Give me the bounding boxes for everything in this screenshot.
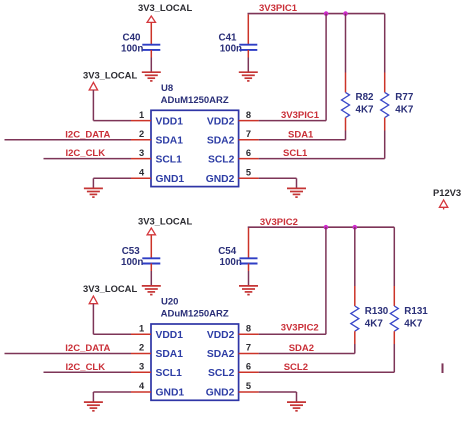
resistor R131 [390, 306, 398, 331]
resistor R77 [381, 92, 389, 117]
svg-text:GND2: GND2 [206, 388, 235, 399]
svg-text:3: 3 [139, 148, 144, 158]
wire R131 bottom to SCL2 [393, 331, 395, 344]
svg-text:C41: C41 [219, 33, 238, 44]
IC U20 ADuM1250ARZ body [151, 324, 239, 400]
svg-text:3V3_LOCAL: 3V3_LOCAL [83, 283, 137, 294]
svg-text:3V3PIC2: 3V3PIC2 [281, 322, 319, 333]
svg-text:4: 4 [139, 168, 145, 178]
power port P12V3 [439, 200, 447, 207]
svg-text:R82: R82 [356, 92, 375, 103]
svg-text:VDD2: VDD2 [207, 330, 235, 341]
svg-text:5: 5 [246, 168, 251, 178]
svg-text:4: 4 [139, 381, 145, 391]
svg-text:1: 1 [139, 110, 144, 120]
svg-text:SCL2: SCL2 [208, 154, 235, 165]
svg-text:GND1: GND1 [156, 174, 185, 185]
wire R130 bottom to SDA2 [354, 331, 356, 344]
svg-text:GND2: GND2 [206, 174, 235, 185]
pin 7 stub (SDA2) [239, 139, 259, 141]
svg-text:100n: 100n [121, 43, 143, 54]
svg-text:SDA2: SDA2 [207, 349, 235, 360]
svg-text:3: 3 [139, 362, 144, 372]
junction (rail / VDD2 branch) [324, 225, 329, 230]
pin 3 stub (SCL1) [131, 371, 151, 373]
svg-text:100n: 100n [220, 257, 242, 268]
svg-text:SDA1: SDA1 [156, 349, 184, 360]
pin 4 stub (GND1) [131, 391, 151, 393]
wire 3V3PIC2 rail [248, 226, 395, 228]
svg-text:7: 7 [246, 343, 251, 353]
pin 1 stub (VDD1) [131, 333, 151, 335]
svg-text:4K7: 4K7 [356, 105, 375, 116]
power port 3V3_LOCAL (top center) [147, 16, 155, 22]
svg-text:SCL1: SCL1 [156, 368, 183, 379]
svg-text:2: 2 [139, 343, 144, 353]
svg-text:U20: U20 [161, 297, 178, 308]
pin 2 stub (SDA1) [131, 139, 151, 141]
svg-text:8: 8 [246, 324, 251, 334]
wire rail corner to R77 top [384, 14, 386, 73]
power port 3V3_LOCAL (top left) [89, 82, 97, 90]
wire rail to U20 VDD2 pin 8 [325, 227, 327, 334]
pin 6 stub (SCL2) [239, 371, 259, 373]
ground (under C40) [142, 72, 161, 81]
wire I2C_DATA to SDA1 pin 2 [5, 139, 132, 141]
svg-text:I2C_DATA: I2C_DATA [65, 343, 110, 354]
power port 3V3_LOCAL (bottom center) [147, 228, 155, 235]
svg-text:R131: R131 [404, 306, 428, 317]
svg-text:SDA2: SDA2 [289, 343, 314, 354]
junction (rail / R130 branch) [353, 225, 358, 230]
svg-text:1: 1 [139, 324, 144, 334]
wire R82 bottom to SDA1 [345, 118, 347, 131]
svg-text:SCL2: SCL2 [208, 368, 235, 379]
pin 1 stub (VDD1) [131, 120, 151, 122]
svg-text:6: 6 [246, 362, 251, 372]
svg-text:ADuM1250ARZ: ADuM1250ARZ [161, 95, 229, 106]
svg-text:SCL1: SCL1 [283, 148, 308, 159]
wire GND2 pin 5 to ground [259, 177, 297, 179]
svg-text:SCL2: SCL2 [284, 362, 308, 373]
svg-text:6: 6 [246, 148, 251, 158]
wire R77 bottom to SCL1 [384, 118, 386, 131]
wire C54 bottom to ground [248, 264, 250, 272]
svg-text:VDD2: VDD2 [207, 116, 235, 127]
svg-text:R130: R130 [365, 306, 389, 317]
wire 3V3_LOCAL to U20 VDD1 pin 1 [92, 304, 94, 335]
ground (U8 GND2) [287, 188, 306, 197]
power port 3V3_LOCAL (bottom left) [89, 296, 97, 304]
wire U20 GND2 pin 5 to ground [259, 391, 297, 393]
ground (under C53) [142, 286, 161, 295]
wire 3V3_LOCAL to C53 top [150, 235, 152, 258]
capacitor C53 [142, 258, 160, 263]
svg-text:3V3_LOCAL: 3V3_LOCAL [83, 70, 137, 81]
svg-text:3V3_LOCAL: 3V3_LOCAL [138, 216, 192, 227]
wire 3V3_LOCAL to VDD1 pin 1 [92, 90, 94, 121]
wire 3V3PIC2 rail to C54 top [248, 228, 250, 258]
wire rail to R82 top [345, 14, 347, 73]
wire 3V3_LOCAL to C40 top [150, 22, 152, 44]
junction (rail / VDD2 branch) [324, 11, 329, 16]
svg-text:SDA1: SDA1 [288, 129, 314, 140]
svg-text:2: 2 [139, 129, 144, 139]
ground (under C41) [239, 72, 258, 81]
pin 5 stub (GND2) [239, 177, 259, 179]
wire C40 bottom to ground [150, 50, 152, 58]
svg-text:3V3PIC1: 3V3PIC1 [259, 3, 298, 14]
junction (rail / R82 branch) [343, 11, 348, 16]
svg-text:3V3_LOCAL: 3V3_LOCAL [138, 2, 192, 13]
svg-text:SDA2: SDA2 [207, 136, 235, 147]
svg-text:SCL1: SCL1 [156, 154, 183, 165]
wire 3V3PIC1 rail [248, 13, 385, 15]
svg-text:I2C_CLK: I2C_CLK [66, 148, 106, 159]
svg-text:4K7: 4K7 [365, 318, 384, 329]
resistor R82 [342, 92, 350, 117]
wire rail to VDD2 pin 8 [325, 14, 327, 121]
wire C41 bottom to ground [247, 50, 249, 58]
svg-text:P12V3: P12V3 [433, 187, 461, 198]
wire I2C_CLK to SCL1 pin 3 [44, 158, 132, 160]
svg-text:4K7: 4K7 [395, 105, 414, 116]
svg-text:5: 5 [246, 381, 251, 391]
svg-text:VDD1: VDD1 [156, 116, 184, 127]
svg-text:3V3PIC1: 3V3PIC1 [281, 110, 320, 121]
ground (U8 GND1) [84, 188, 103, 197]
svg-text:C54: C54 [218, 246, 237, 257]
wire 3V3PIC1 rail to C41 top [247, 14, 249, 44]
svg-text:8: 8 [246, 110, 251, 120]
pin 3 stub (SCL1) [131, 158, 151, 160]
svg-text:100n: 100n [220, 43, 242, 54]
pin 7 stub (SDA2) [239, 353, 259, 355]
svg-text:100n: 100n [121, 257, 143, 268]
svg-text:3V3PIC2: 3V3PIC2 [260, 217, 298, 228]
wire rail to R130 top [354, 227, 356, 286]
IC U8 ADuM1250ARZ body [151, 110, 239, 186]
svg-text:ADuM1250ARZ: ADuM1250ARZ [161, 309, 229, 320]
pin 6 stub (SCL2) [239, 158, 259, 160]
pin 8 stub (VDD2) [239, 120, 259, 122]
wire I2C_CLK to U20 SCL1 pin 3 [44, 371, 132, 373]
pin 4 stub (GND1) [131, 177, 151, 179]
svg-text:7: 7 [246, 129, 251, 139]
resistor R130 [351, 306, 359, 331]
svg-text:GND1: GND1 [156, 388, 185, 399]
svg-text:I2C_DATA: I2C_DATA [65, 129, 110, 140]
pin 5 stub (GND2) [239, 391, 259, 393]
power port P12V3 stem [443, 207, 445, 209]
wire rail corner to R131 top [393, 227, 395, 286]
pin 2 stub (SDA1) [131, 353, 151, 355]
svg-text:C40: C40 [123, 33, 142, 44]
svg-text:4K7: 4K7 [404, 318, 423, 329]
capacitor C54 [240, 258, 258, 263]
wire GND1 pin 4 to ground [93, 177, 131, 179]
wire I2C_DATA to U20 SDA1 pin 2 [5, 353, 132, 355]
wire stub (right edge) [442, 363, 444, 373]
ground (U20 GND2) [287, 402, 306, 411]
wire C53 bottom to ground [150, 264, 152, 272]
ground (under C54) [239, 286, 258, 295]
svg-text:R77: R77 [395, 92, 414, 103]
ground (U20 GND1) [84, 402, 103, 411]
svg-text:C53: C53 [122, 246, 141, 257]
svg-text:VDD1: VDD1 [156, 330, 184, 341]
capacitor C41 [239, 45, 257, 50]
wire U20 GND1 pin 4 to ground [93, 391, 131, 393]
svg-text:U8: U8 [161, 83, 173, 94]
pin 8 stub (VDD2) [239, 333, 259, 335]
svg-text:I2C_CLK: I2C_CLK [66, 362, 106, 373]
capacitor C40 [142, 45, 160, 50]
svg-text:SDA1: SDA1 [156, 136, 184, 147]
